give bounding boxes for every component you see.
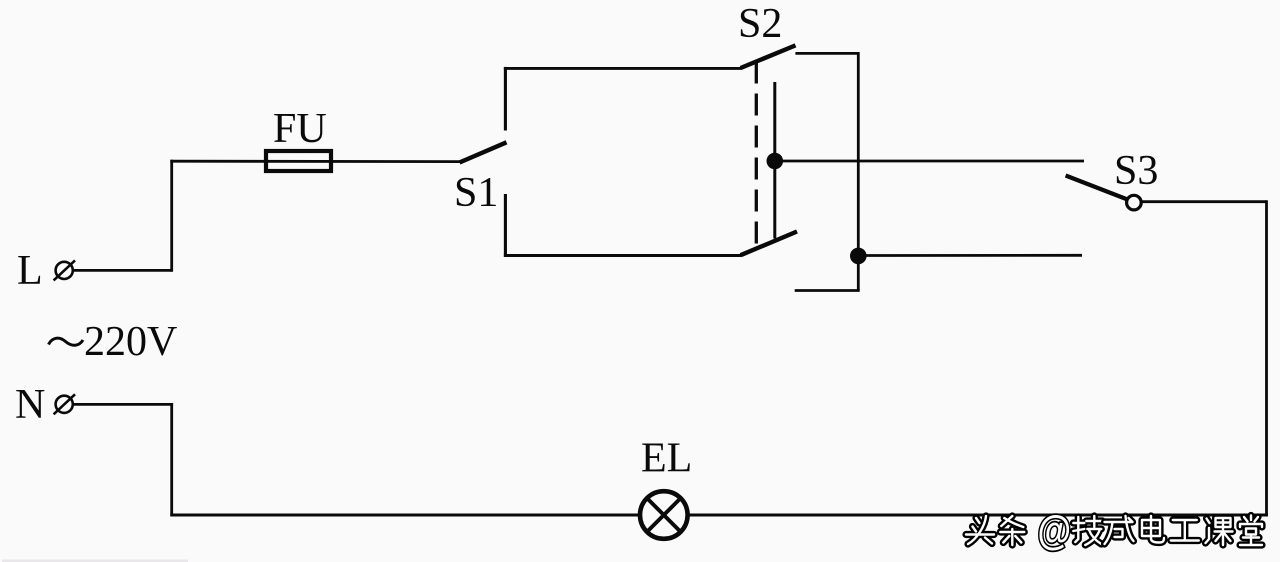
svg-text:FU: FU	[273, 106, 327, 152]
wire N terminal to left riser	[74, 403, 174, 406]
svg-text:EL: EL	[641, 436, 692, 482]
junction dot B	[850, 248, 867, 265]
wire fuse line to S1 pivot	[170, 160, 459, 163]
watermark 头条@技成电工课堂	[966, 508, 1262, 553]
wire left riser N to lamp line	[170, 403, 173, 516]
switch S2 dashed mechanical link	[755, 62, 758, 250]
fuse FU	[266, 151, 331, 171]
wire lamp line right segment	[689, 514, 1268, 517]
wire dot B to S3 lower contact	[858, 254, 1082, 257]
switch S1 upper contact	[504, 67, 507, 131]
wire right vertical drop to lamp line	[1265, 200, 1268, 516]
wire L terminal to left riser	[74, 269, 172, 272]
switch S2 top blade	[741, 45, 796, 68]
label ~220V tilde	[49, 338, 84, 345]
wire S3 to right edge	[1142, 200, 1267, 203]
switch S3 blade	[1066, 176, 1128, 200]
wire dot A to S3 upper contact	[775, 160, 1084, 163]
svg-text:220V: 220V	[84, 319, 177, 365]
svg-text:S2: S2	[738, 1, 782, 47]
switch S2 top contact wire	[795, 52, 858, 55]
svg-text:S1: S1	[454, 170, 498, 216]
switch S1 lower contact	[504, 194, 507, 257]
wire bottom rail S1 to S2	[504, 254, 741, 257]
wire lamp line left segment	[170, 514, 638, 517]
switch S2 bottom blade	[741, 232, 797, 256]
lamp EL	[640, 491, 688, 539]
junction dot A	[767, 153, 784, 170]
switch S1 blade	[460, 142, 507, 162]
svg-text:@: @	[1038, 508, 1072, 553]
svg-text:S3: S3	[1114, 148, 1158, 194]
wire top rail S1 to S2	[504, 67, 742, 70]
svg-text:L: L	[17, 248, 43, 294]
switch S3 common terminal circle	[1127, 195, 1142, 210]
terminal L	[54, 260, 75, 280]
switch S2 middle bar	[773, 82, 776, 239]
terminal N	[54, 394, 75, 414]
wire S2 bottom hook	[795, 289, 860, 292]
svg-text:N: N	[15, 382, 45, 428]
wire S2 right vertical drop	[857, 52, 860, 291]
wire left riser up to fuse line	[170, 160, 173, 272]
faint cropped text remnant bottom left	[2, 560, 188, 562]
